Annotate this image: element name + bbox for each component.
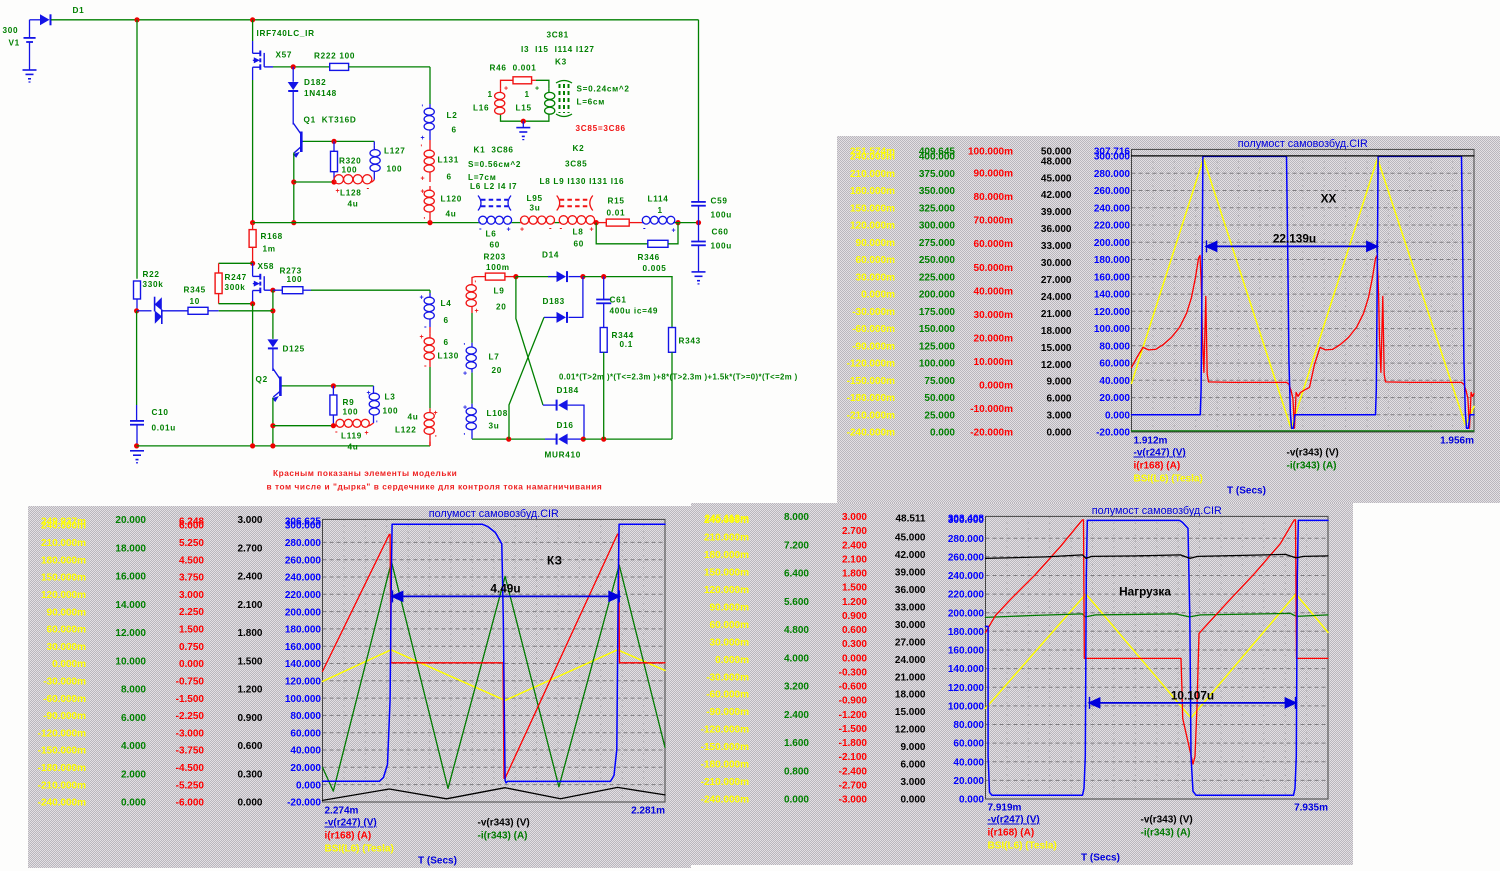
svg-text:1.956m: 1.956m [1440, 436, 1474, 447]
svg-text:100m: 100m [486, 263, 510, 272]
svg-text:45.000: 45.000 [1041, 173, 1072, 184]
svg-text:200.000: 200.000 [285, 607, 322, 618]
svg-text:': ' [421, 145, 423, 152]
svg-text:27.000: 27.000 [1041, 275, 1072, 286]
svg-text:-240.000m: -240.000m [701, 795, 749, 806]
svg-text:-: - [560, 224, 563, 233]
svg-text:Нагрузка: Нагрузка [1119, 584, 1171, 598]
svg-text:2.700: 2.700 [842, 526, 867, 537]
svg-text:4u: 4u [348, 443, 359, 452]
svg-text:4.000: 4.000 [784, 653, 809, 664]
svg-text:-210.000m: -210.000m [701, 777, 749, 788]
svg-text:2.281m: 2.281m [631, 806, 665, 817]
svg-text:60.000m: 60.000m [974, 239, 1014, 250]
svg-text:C10: C10 [152, 408, 169, 417]
svg-text:10: 10 [190, 297, 201, 306]
resistor R247 loop [219, 262, 253, 264]
svg-text:160.000: 160.000 [1094, 272, 1131, 283]
svg-text:1m: 1m [263, 245, 276, 254]
svg-text:60: 60 [490, 241, 501, 250]
svg-text:R345: R345 [184, 286, 206, 295]
svg-text:L=6cм: L=6cм [577, 98, 605, 107]
wire mid rail [253, 222, 479, 224]
resistor R222 [330, 63, 349, 70]
svg-text:+: + [420, 295, 424, 302]
wire L95-L8 [555, 222, 559, 224]
svg-text:150.000m: 150.000m [850, 203, 895, 214]
svg-text:245.112m: 245.112m [705, 514, 750, 525]
ground below transformer [522, 121, 524, 127]
node X58 gate / R273 [270, 288, 275, 293]
svg-text:+: + [463, 405, 467, 412]
svg-text:BSI(L6) (Tesla): BSI(L6) (Tesla) [988, 841, 1057, 852]
resistor R203 [472, 277, 485, 281]
svg-text:-60.000m: -60.000m [852, 324, 895, 335]
node X58 source / R247 [250, 301, 255, 306]
svg-text:4u: 4u [446, 210, 457, 219]
wire emitter rail [294, 181, 334, 183]
node bridge rail left [506, 437, 511, 442]
inductor L131 [429, 140, 431, 146]
svg-text:220.000: 220.000 [948, 590, 985, 601]
svg-text:R46 0.001: R46 0.001 [490, 64, 537, 73]
svg-text:0.000: 0.000 [842, 653, 867, 664]
svg-text:-3.000: -3.000 [176, 728, 205, 739]
svg-text:-i(r343) (A): -i(r343) (A) [1287, 461, 1337, 472]
svg-text:-30.000m: -30.000m [706, 672, 749, 683]
svg-text:0.000m: 0.000m [715, 655, 749, 666]
mosfet X58 [252, 263, 254, 276]
svg-text:350.000: 350.000 [919, 186, 956, 197]
svg-text:-0.900: -0.900 [839, 696, 868, 707]
svg-text:V1: V1 [9, 39, 20, 48]
svg-text:R15: R15 [608, 197, 625, 206]
svg-text:0.1: 0.1 [620, 340, 633, 349]
svg-text:6: 6 [447, 173, 452, 182]
svg-text:3u: 3u [489, 422, 500, 431]
wire L114 to C-mid [675, 222, 699, 224]
svg-text:-v(r343) (V): -v(r343) (V) [1141, 815, 1193, 826]
node C59/C60 midpoint [696, 220, 701, 225]
svg-text:-1.800: -1.800 [839, 738, 868, 749]
svg-text:+: + [475, 308, 479, 315]
node bottom rail / Q2 emitter [270, 443, 275, 448]
svg-text:0.000: 0.000 [237, 798, 262, 809]
svg-text:0.000: 0.000 [784, 795, 809, 806]
svg-text:L130: L130 [438, 352, 459, 361]
panel XX top-right [837, 136, 1500, 503]
svg-text:+: + [421, 189, 425, 196]
svg-text:-180.000m: -180.000m [701, 760, 749, 771]
svg-text:3.000: 3.000 [842, 512, 867, 523]
svg-text:6: 6 [444, 316, 449, 325]
svg-text:L119: L119 [341, 432, 362, 441]
ground below bottom rail [130, 450, 144, 452]
svg-text:1.200: 1.200 [237, 685, 262, 696]
svg-text:1.600: 1.600 [784, 738, 809, 749]
node bottom rail / X58 source [250, 443, 255, 448]
wire D182 to Q1 [292, 92, 294, 125]
svg-text:60.000m: 60.000m [856, 255, 896, 266]
diode D183 [544, 316, 557, 318]
node mid rail / Q1 emitter [291, 220, 296, 225]
wire X58 source down [252, 304, 254, 446]
svg-text:10.107u: 10.107u [1171, 688, 1214, 702]
svg-text:-90.000m: -90.000m [706, 707, 749, 718]
diode D14 [548, 276, 557, 278]
svg-text:-: - [335, 427, 338, 436]
svg-text:3C85=3C86: 3C85=3C86 [576, 124, 626, 133]
svg-text:6.400: 6.400 [784, 569, 809, 580]
svg-text:280.000: 280.000 [1094, 169, 1131, 180]
svg-text:20.000: 20.000 [115, 515, 146, 526]
wire Q1 emitter down [293, 153, 295, 223]
svg-text:L9: L9 [494, 287, 505, 296]
svg-text:-6.000: -6.000 [176, 798, 205, 809]
svg-text:100.000: 100.000 [919, 359, 956, 370]
svg-text:27.000: 27.000 [895, 637, 926, 648]
svg-text:3.750: 3.750 [179, 573, 204, 584]
svg-text:3C81: 3C81 [547, 31, 569, 40]
svg-text:-3.750: -3.750 [176, 746, 205, 757]
svg-text:K1 3C86: K1 3C86 [474, 146, 514, 155]
wire R273 to L4 [311, 289, 430, 291]
svg-text:D182: D182 [304, 78, 326, 87]
svg-text:': ' [422, 105, 424, 112]
svg-text:210.000m: 210.000m [850, 169, 895, 180]
svg-text:L120: L120 [441, 195, 462, 204]
svg-text:300.000: 300.000 [919, 221, 956, 232]
inductor L127 [373, 141, 375, 145]
svg-text:-: - [549, 224, 552, 233]
svg-text:-1.200: -1.200 [839, 710, 868, 721]
svg-text:-30.000m: -30.000m [852, 307, 895, 318]
svg-text:12.000: 12.000 [895, 725, 926, 736]
node D14 / D183 [580, 274, 585, 279]
svg-text:0.01*(T>2m )*(T<=2.3m )+8*(T>2: 0.01*(T>2m )*(T<=2.3m )+8*(T>2.3m )+1.5k… [559, 373, 798, 382]
svg-text:+: + [507, 227, 511, 234]
svg-text:L15: L15 [516, 104, 532, 113]
svg-text:80.000: 80.000 [290, 711, 321, 722]
resistor R15 [596, 222, 606, 224]
svg-text:0.300: 0.300 [237, 769, 262, 780]
svg-text:240.000m: 240.000m [850, 152, 895, 163]
node R320 / L128 [331, 179, 336, 184]
svg-text:-2.400: -2.400 [839, 766, 868, 777]
svg-text:1.500: 1.500 [842, 583, 867, 594]
svg-text:C59: C59 [711, 197, 728, 206]
wire bottom rail [137, 445, 430, 447]
svg-text:15.000: 15.000 [895, 707, 926, 718]
svg-text:+: + [463, 371, 467, 378]
node D16 / D184 [581, 437, 586, 442]
svg-text:6: 6 [452, 126, 457, 135]
wire D14 out [583, 276, 673, 278]
svg-text:30.000: 30.000 [1041, 258, 1072, 269]
svg-text:L131: L131 [438, 156, 459, 165]
svg-text:-: - [424, 361, 427, 370]
svg-text:D1: D1 [73, 6, 85, 15]
svg-text:60: 60 [574, 240, 585, 249]
svg-text:42.000: 42.000 [895, 550, 926, 561]
svg-text:1.500: 1.500 [179, 625, 204, 636]
svg-text:D16: D16 [557, 421, 574, 430]
svg-text:70.000m: 70.000m [974, 216, 1014, 227]
svg-text:42.000: 42.000 [1041, 190, 1072, 201]
inductor L130 [429, 327, 431, 334]
svg-text:0.005: 0.005 [643, 264, 667, 273]
svg-text:L127: L127 [384, 147, 405, 156]
svg-text:375.000: 375.000 [919, 169, 956, 180]
svg-text:R344: R344 [612, 331, 634, 340]
svg-text:-20.000: -20.000 [287, 798, 321, 809]
svg-text:1N4148: 1N4148 [304, 89, 337, 98]
svg-text:175.000: 175.000 [919, 307, 956, 318]
coupling K2 core [560, 199, 590, 201]
svg-text:-10.000m: -10.000m [970, 404, 1013, 415]
svg-text:0.000: 0.000 [959, 795, 984, 806]
svg-text:3.000: 3.000 [237, 515, 262, 526]
svg-text:+: + [367, 390, 371, 397]
svg-text:R22: R22 [143, 270, 160, 279]
svg-text:': ' [464, 433, 466, 440]
svg-text:-: - [367, 184, 370, 193]
svg-text:5.600: 5.600 [784, 597, 809, 608]
svg-text:12.000: 12.000 [115, 628, 146, 639]
svg-text:2.700: 2.700 [237, 543, 262, 554]
diode D182 [288, 82, 299, 90]
svg-text:T (Secs): T (Secs) [1227, 486, 1266, 497]
svg-text:L=7cм: L=7cм [468, 173, 496, 182]
transistor Q1 [300, 132, 303, 153]
diode D125 [267, 339, 278, 347]
svg-text:BSI(L6) (Tesla): BSI(L6) (Tesla) [1134, 474, 1203, 485]
svg-text:40.000m: 40.000m [974, 286, 1014, 297]
svg-text:+: + [434, 410, 438, 417]
svg-text:0.000: 0.000 [121, 798, 146, 809]
svg-text:200.000: 200.000 [919, 290, 956, 301]
svg-text:-180.000m: -180.000m [38, 763, 86, 774]
voltage source V1 [29, 20, 31, 38]
resistor R344 [600, 328, 607, 353]
inductor L108 [471, 404, 473, 408]
ground below V1 [23, 69, 37, 71]
svg-text:-210.000m: -210.000m [38, 780, 86, 791]
svg-text:120.000: 120.000 [948, 683, 985, 694]
svg-text:полумост самовозбуд.CIR: полумост самовозбуд.CIR [429, 508, 559, 520]
svg-text:14.000: 14.000 [115, 600, 146, 611]
svg-text:90.000m: 90.000m [47, 607, 87, 618]
svg-text:60.000: 60.000 [1099, 359, 1130, 370]
panel Nagruzka bottom-right [691, 503, 1353, 865]
capacitor C10 [130, 420, 144, 422]
svg-text:-: - [643, 224, 646, 233]
svg-text:325.000: 325.000 [919, 203, 956, 214]
svg-text:18.000: 18.000 [1041, 326, 1072, 337]
svg-text:4u: 4u [348, 199, 359, 208]
resistor R46 [501, 80, 514, 88]
svg-text:R346: R346 [638, 253, 660, 262]
svg-text:+: + [590, 227, 594, 234]
svg-text:0.300: 0.300 [842, 639, 867, 650]
inductor L15 [536, 80, 549, 88]
wire top rail [51, 19, 699, 21]
svg-text:100: 100 [342, 166, 358, 175]
svg-text:L8 L9 I130 I131 I16: L8 L9 I130 I131 I16 [540, 177, 625, 186]
svg-text:12.000: 12.000 [1041, 360, 1072, 371]
svg-text:+: + [504, 86, 508, 93]
svg-text:S=0.24cм^2: S=0.24cм^2 [577, 85, 630, 94]
resistor R320 [333, 141, 335, 151]
node base / R9 [331, 383, 336, 388]
svg-text:300k: 300k [225, 283, 246, 292]
svg-text:0.000m: 0.000m [979, 381, 1013, 392]
svg-text:30.000m: 30.000m [856, 272, 896, 283]
wire top rail right drop [698, 20, 700, 180]
svg-text:140.000: 140.000 [948, 664, 985, 675]
node L8 / R15 / R346 [594, 220, 599, 225]
svg-text:240.000: 240.000 [948, 571, 985, 582]
svg-text:L6: L6 [486, 230, 497, 239]
svg-text:160.000: 160.000 [285, 642, 322, 653]
svg-text:D125: D125 [283, 345, 305, 354]
svg-text:100.000: 100.000 [948, 702, 985, 713]
node base / R320 [331, 139, 336, 144]
svg-text:4.500: 4.500 [179, 555, 204, 566]
node transformer ground [521, 119, 526, 124]
svg-text:-v(r247) (V): -v(r247) (V) [1134, 448, 1186, 459]
svg-text:2.400: 2.400 [842, 540, 867, 551]
svg-text:T (Secs): T (Secs) [1081, 853, 1120, 864]
svg-text:140.000: 140.000 [1094, 290, 1131, 301]
svg-text:L16: L16 [473, 104, 489, 113]
inductor L8 [559, 222, 561, 224]
wire bridge rail right [583, 438, 672, 440]
svg-text:L8: L8 [573, 228, 584, 237]
svg-text:-240.000m: -240.000m [38, 798, 86, 809]
inductor L122 [429, 408, 431, 412]
svg-text:0.000m: 0.000m [52, 659, 86, 670]
svg-text:250.000: 250.000 [919, 255, 956, 266]
svg-text:-0.750: -0.750 [176, 677, 205, 688]
svg-text:L2: L2 [447, 111, 458, 120]
svg-text:-60.000m: -60.000m [706, 690, 749, 701]
svg-text:3.000: 3.000 [900, 777, 925, 788]
svg-text:90.000m: 90.000m [974, 169, 1014, 180]
svg-text:2.100: 2.100 [237, 600, 262, 611]
svg-text:303.408: 303.408 [948, 514, 985, 525]
svg-text:22.139u: 22.139u [1273, 231, 1316, 245]
svg-text:КЗ: КЗ [547, 553, 562, 567]
svg-text:1.200: 1.200 [842, 597, 867, 608]
svg-text:Q1 KT316D: Q1 KT316D [304, 116, 357, 125]
svg-text:0.000m: 0.000m [861, 290, 895, 301]
svg-text:-20.000m: -20.000m [970, 428, 1013, 439]
svg-text:-150.000m: -150.000m [847, 376, 895, 387]
svg-text:200.000: 200.000 [1094, 238, 1131, 249]
svg-text:15.000: 15.000 [1041, 343, 1072, 354]
svg-text:-30.000m: -30.000m [43, 677, 86, 688]
svg-text:180.000: 180.000 [948, 627, 985, 638]
svg-text:125.000: 125.000 [919, 341, 956, 352]
svg-text:L114: L114 [648, 195, 669, 204]
svg-text:24.000: 24.000 [1041, 292, 1072, 303]
svg-text:280.000: 280.000 [948, 534, 985, 545]
inductor L119 [336, 425, 338, 427]
svg-text:10.000: 10.000 [115, 656, 146, 667]
svg-text:120.000: 120.000 [285, 677, 322, 688]
coupling K1 core [481, 199, 508, 201]
svg-text:-0.600: -0.600 [839, 682, 868, 693]
svg-text:4.49u: 4.49u [490, 581, 520, 595]
svg-text:400u ic=49: 400u ic=49 [610, 307, 659, 316]
svg-text:R222 100: R222 100 [314, 52, 355, 61]
wire L7 to L108 [471, 373, 473, 404]
svg-text:X58: X58 [258, 262, 275, 271]
svg-text:L108: L108 [487, 409, 508, 418]
svg-text:21.000: 21.000 [895, 672, 926, 683]
svg-text:R343: R343 [679, 337, 701, 346]
svg-text:300.000: 300.000 [285, 521, 322, 532]
svg-text:20.000: 20.000 [953, 776, 984, 787]
svg-text:R320: R320 [339, 157, 361, 166]
svg-text:40.000: 40.000 [953, 757, 984, 768]
wire bottom rail to L122 [429, 442, 431, 446]
svg-text:9.000: 9.000 [900, 742, 925, 753]
svg-text:6.000: 6.000 [1046, 394, 1071, 405]
svg-text:100.000: 100.000 [1094, 324, 1131, 335]
svg-text:0.900: 0.900 [842, 611, 867, 622]
svg-text:150.000: 150.000 [919, 324, 956, 335]
svg-text:-90.000m: -90.000m [852, 341, 895, 352]
svg-text:60.000m: 60.000m [47, 625, 87, 636]
svg-text:L3: L3 [385, 393, 396, 402]
svg-text:300.000: 300.000 [1094, 152, 1131, 163]
wire X57 gate to R222 [273, 66, 330, 68]
svg-text:1.500: 1.500 [237, 656, 262, 667]
svg-text:L4: L4 [441, 299, 452, 308]
diode D16 [545, 438, 557, 440]
mosfet X57 [253, 52, 261, 54]
svg-text:7.935m: 7.935m [1294, 803, 1328, 814]
svg-text:240.000m: 240.000m [41, 521, 86, 532]
svg-text:C61: C61 [610, 296, 627, 305]
svg-text:R203: R203 [484, 253, 506, 262]
svg-text:210.000m: 210.000m [704, 533, 749, 544]
svg-text:210.000m: 210.000m [41, 538, 86, 549]
svg-text:K3: K3 [555, 58, 567, 67]
svg-text:4.800: 4.800 [784, 625, 809, 636]
wire R222 to L2 [349, 66, 430, 68]
capacitor C59 [698, 180, 700, 202]
node top rail / left branch [134, 17, 139, 22]
svg-text:36.000: 36.000 [895, 585, 926, 596]
svg-text:2.100: 2.100 [842, 554, 867, 565]
svg-text:0.000: 0.000 [179, 659, 204, 670]
svg-text:20.000: 20.000 [1099, 393, 1130, 404]
wire crossover A [516, 277, 543, 406]
svg-text:-150.000m: -150.000m [701, 742, 749, 753]
svg-text:225.000: 225.000 [919, 272, 956, 283]
svg-text:180.000m: 180.000m [704, 550, 749, 561]
svg-text:120.000m: 120.000m [850, 221, 895, 232]
inductor L4 [429, 293, 431, 297]
svg-text:X57: X57 [276, 51, 293, 60]
svg-text:+: + [672, 228, 676, 235]
svg-text:6.000: 6.000 [121, 713, 146, 724]
svg-text:L128: L128 [340, 189, 361, 198]
svg-text:30.000m: 30.000m [710, 637, 750, 648]
